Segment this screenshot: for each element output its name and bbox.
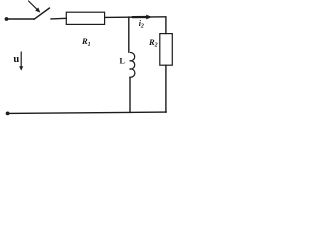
switch S1 blade (open, rising to upper right) (34, 8, 50, 19)
inductor L (coil) (130, 52, 135, 77)
wire: inductor bottom down to bottom rail (129, 77, 131, 112)
resistor R2 (box) (160, 34, 173, 66)
svg-text:u: u (13, 54, 19, 65)
resistor R1 (box) (66, 12, 104, 24)
wire: bottom rail (8, 112, 167, 113)
switch actuation arrow (pointing at blade) (29, 1, 41, 13)
voltage arrow u (downward, at input port) (19, 52, 23, 71)
wire: R2 bottom down to bottom rail (165, 65, 167, 112)
node: top-left terminal dot (5, 17, 9, 21)
node: bottom-left terminal dot (6, 112, 10, 116)
wire: middle branch from top rail down to inductor (128, 17, 130, 52)
wire: top-right corner down to R2 (165, 17, 167, 34)
wire: top-left terminal to switch (7, 18, 35, 20)
svg-text:L: L (120, 57, 125, 66)
current arrow i2 on top wire (133, 15, 153, 20)
wire: switch right contact to R1 (51, 17, 67, 20)
wire: R1 to top-right corner (105, 16, 166, 19)
